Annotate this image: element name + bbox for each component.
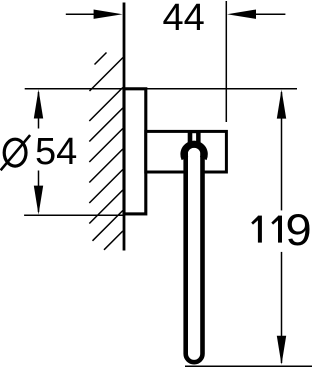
- svg-text:9: 9: [285, 205, 311, 255]
- arrow 119 up: [277, 90, 286, 119]
- extension line top (Ø54 top / 119 top, y=88.8): [25, 88, 297, 90]
- diameter symbol: [4, 139, 26, 166]
- dimension line 44 right segment: [250, 13, 285, 15]
- hanger bar: [186, 148, 203, 362]
- wall face line: [123, 3, 126, 251]
- extension line Ø54 bottom: [24, 214, 124, 216]
- arrow Ø54 down: [34, 186, 43, 215]
- arrow 119 down: [277, 336, 286, 365]
- dimension line 44 left segment: [66, 13, 100, 15]
- dimension line Ø54 upper segment: [38, 92, 40, 129]
- dimension line 119 upper segment: [281, 92, 283, 210]
- arrow 44 right: [227, 10, 256, 19]
- holder body box: [146, 131, 227, 172]
- pin slot: [192, 133, 196, 143]
- extension line 44 right: [225, 1, 227, 122]
- svg-text:54: 54: [35, 131, 77, 173]
- label 119: digit 1: [251, 216, 262, 243]
- pin (pivot): [188, 132, 201, 144]
- extension line 119 bottom: [185, 365, 312, 367]
- arrow 44 left: [94, 10, 123, 19]
- mounting plate (rosette, side view): [124, 89, 146, 214]
- dimension line 119 lower segment: [281, 252, 283, 363]
- hanger crown (loop over pin): [184, 144, 204, 158]
- wall hatching: [89, 53, 123, 250]
- svg-text:44: 44: [163, 0, 205, 39]
- label 119: digit 1: [271, 216, 282, 243]
- dimension line Ø54 lower segment: [38, 171, 40, 213]
- arrow Ø54 up: [34, 90, 43, 119]
